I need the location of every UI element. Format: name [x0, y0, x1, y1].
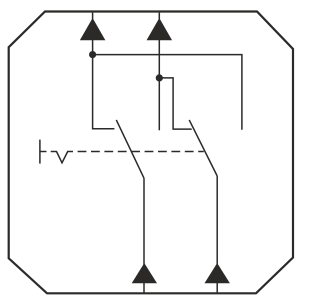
terminal arrow bottom-right	[205, 264, 229, 283]
manual actuator tick	[40, 151, 47, 153]
wire node B right then down then right to right-pole fixed contact	[159, 78, 191, 129]
wire terminal 2 down through node B to contact stub	[158, 13, 160, 131]
node B (junction dot)	[156, 74, 163, 81]
wire node A right then down to right-pole fixed contact	[93, 55, 242, 130]
node A (junction dot)	[89, 51, 96, 58]
wire right pole pivot down to bottom terminal	[216, 176, 218, 293]
wire left pole pivot down to bottom terminal	[143, 178, 145, 293]
terminal arrow top-right	[147, 19, 171, 40]
wire terminal 1 down to node A	[92, 13, 94, 55]
linkage V notch with adjoining dashes	[51, 152, 73, 163]
manual actuator bar	[39, 140, 41, 164]
terminal arrow bottom-left	[133, 264, 157, 283]
switch blade right pole	[189, 120, 217, 176]
wire node A down then right to left-pole fixed contact	[93, 55, 115, 129]
terminal arrow top-left	[81, 19, 105, 40]
mechanical linkage dashed line	[78, 151, 204, 153]
switch blade left pole	[116, 120, 144, 178]
